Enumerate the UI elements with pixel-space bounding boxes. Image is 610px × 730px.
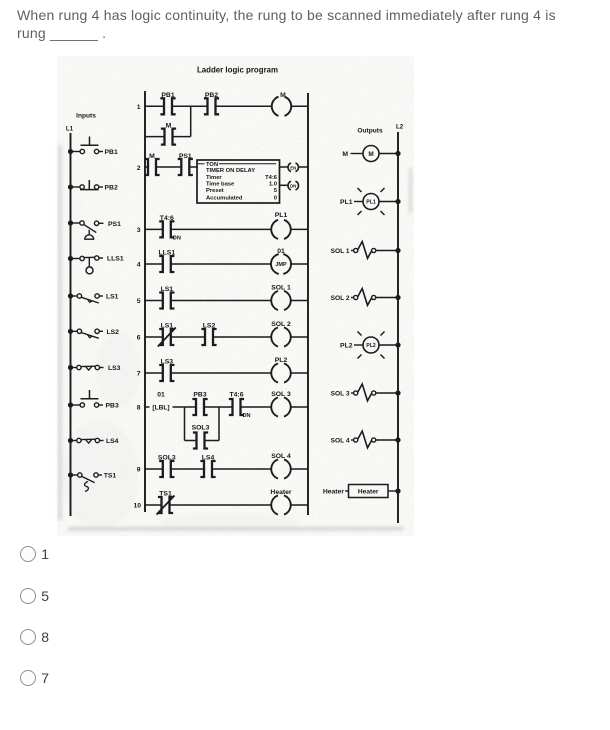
svg-text:PB3: PB3 <box>106 403 119 410</box>
node: rung number 3 <box>137 227 141 234</box>
contact LS4 (NO) rung 9 <box>200 455 215 478</box>
coil PL1 rung 3 <box>271 212 291 239</box>
coil Heater rung 10 <box>270 489 292 515</box>
contact LS1 (NC) rung 6 <box>158 323 176 347</box>
wire rung 9 <box>145 468 308 470</box>
contact LLS1 (NO) rung 4 <box>158 250 175 273</box>
solenoid SOL 2 output <box>331 289 401 306</box>
node: rung number 9 <box>137 467 141 474</box>
svg-text:5: 5 <box>137 298 141 305</box>
contact M seal-in (NO) rung 1 branch <box>161 123 176 145</box>
svg-text:PB1: PB1 <box>105 149 118 156</box>
svg-text:6: 6 <box>137 335 141 342</box>
pilot light PL1 output <box>340 188 401 215</box>
svg-text:M: M <box>166 123 172 130</box>
svg-text:TS1: TS1 <box>104 473 117 480</box>
svg-text:LLS1: LLS1 <box>158 250 175 257</box>
svg-text:SOL 3: SOL 3 <box>331 391 350 398</box>
contact PS1 (NO) rung 2 <box>178 153 193 175</box>
svg-text:DN: DN <box>243 413 251 419</box>
svg-text:Heater: Heater <box>270 489 292 496</box>
svg-text:9: 9 <box>137 467 141 474</box>
svg-text:SOL3: SOL3 <box>158 455 176 462</box>
level switch LLS1 (NO) input <box>68 256 124 274</box>
svg-text:PL2: PL2 <box>340 343 353 350</box>
svg-text:2: 2 <box>137 165 141 172</box>
wire rung 1 <box>145 105 308 107</box>
coil EN of timer T4:6 <box>280 163 309 172</box>
svg-text:Preset: Preset <box>206 188 224 194</box>
node: rung number 7 <box>137 371 141 378</box>
svg-text:LS2: LS2 <box>203 323 216 330</box>
coil SOL 4 rung 9 <box>271 453 291 479</box>
svg-text:LS3: LS3 <box>161 359 174 366</box>
svg-text:M: M <box>368 151 373 158</box>
svg-text:Timer: Timer <box>206 175 222 181</box>
coil DN of timer T4:6 <box>280 181 299 190</box>
label Outputs <box>357 128 383 135</box>
wire rung 6 <box>145 336 308 338</box>
wire: L1 input rail <box>70 133 72 516</box>
svg-text:PS1: PS1 <box>108 221 121 228</box>
svg-text:PL2: PL2 <box>275 357 288 364</box>
wire rung 7 <box>145 372 308 374</box>
svg-text:LS2: LS2 <box>107 329 120 336</box>
wire rung 8 <box>145 406 308 408</box>
pushbutton PB1 (NO) input <box>68 137 118 157</box>
svg-text:PS1: PS1 <box>179 153 192 160</box>
svg-text:8: 8 <box>137 405 141 412</box>
svg-text:01: 01 <box>277 248 285 255</box>
pushbutton PB3 (NO) input <box>68 390 119 410</box>
pilot light PL2 output <box>340 332 401 359</box>
svg-text:T4:6: T4:6 <box>265 175 278 181</box>
wire: rung 8 parallel branch <box>185 407 220 441</box>
svg-text:SOL 1: SOL 1 <box>271 285 291 292</box>
coil SOL 3 rung 8 <box>271 391 291 417</box>
wire rung 2 <box>145 166 198 168</box>
pushbutton PB2 (NC) input <box>68 180 118 192</box>
svg-text:SOL 4: SOL 4 <box>331 438 350 445</box>
coil PL2 rung 7 <box>271 357 291 383</box>
svg-text:01: 01 <box>157 392 165 399</box>
label LBL 01 rung 8 <box>152 392 169 412</box>
svg-text:SOL 4: SOL 4 <box>271 453 291 460</box>
contact LS1 (NO) rung 5 <box>159 286 174 309</box>
svg-text:PL1: PL1 <box>340 199 353 206</box>
svg-text:LLS1: LLS1 <box>107 256 124 263</box>
svg-text:SOL 2: SOL 2 <box>331 295 350 302</box>
svg-text:M: M <box>280 92 286 99</box>
wire: rung 1 parallel branch <box>145 106 191 136</box>
svg-text:Heater: Heater <box>323 489 345 496</box>
svg-text:Inputs: Inputs <box>76 113 96 120</box>
svg-text:JMP: JMP <box>275 262 287 268</box>
limit switch LS4 (NC held) input <box>68 438 119 445</box>
svg-text:TS1: TS1 <box>159 491 172 498</box>
scanned paper background <box>57 56 414 536</box>
wire rung 5 <box>145 300 308 302</box>
node: rung number 8 <box>137 405 141 412</box>
contact LS3 (NO) rung 7 <box>159 359 174 382</box>
contact PB3 (NO) rung 8 <box>192 392 207 416</box>
svg-text:LS3: LS3 <box>108 365 121 372</box>
node: rung number 6 <box>137 335 141 342</box>
coil SOL 2 rung 6 <box>271 321 291 347</box>
svg-text:Time base: Time base <box>206 181 235 187</box>
svg-text:4: 4 <box>137 262 141 269</box>
coil JMP 01 rung 4 <box>271 248 291 274</box>
svg-text:L2: L2 <box>396 124 404 131</box>
svg-text:PL1: PL1 <box>366 200 376 206</box>
heater output <box>323 485 401 498</box>
coil SOL 1 rung 5 <box>271 285 291 311</box>
svg-text:TIMER ON DELAY: TIMER ON DELAY <box>206 168 255 174</box>
node: rung number 2 <box>137 165 141 172</box>
svg-text:PB1: PB1 <box>161 92 174 99</box>
limit switch LS1 (NO) input <box>68 293 119 303</box>
svg-text:T4:6: T4:6 <box>230 392 244 399</box>
contact T4:6 DN (NO) rung 3 <box>159 215 181 242</box>
svg-text:PL1: PL1 <box>275 212 288 219</box>
svg-text:LS4: LS4 <box>202 455 215 462</box>
label Inputs <box>76 113 96 120</box>
temperature switch TS1 input <box>68 472 116 491</box>
wire rung 3 <box>145 228 308 230</box>
svg-text:L1: L1 <box>66 126 74 133</box>
node: rung number 4 <box>137 262 141 269</box>
svg-text:M: M <box>342 151 348 158</box>
node L2 <box>396 124 404 131</box>
svg-text:LS1: LS1 <box>161 323 174 330</box>
contact LS2 (NO) rung 6 <box>201 323 216 346</box>
contact PB1 (NO) rung 1 <box>160 92 175 114</box>
svg-text:[LBL]: [LBL] <box>152 405 169 412</box>
svg-text:T4:6: T4:6 <box>160 215 174 222</box>
motor M output <box>342 146 400 162</box>
svg-text:LS4: LS4 <box>106 438 119 445</box>
svg-text:LS1: LS1 <box>106 294 119 301</box>
svg-text:PL2: PL2 <box>366 343 376 349</box>
svg-text:Accumulated: Accumulated <box>206 196 243 202</box>
node: rung number 5 <box>137 298 141 305</box>
title: Ladder logic program <box>197 66 278 75</box>
wire rung 4 <box>145 263 308 265</box>
svg-text:LS1: LS1 <box>161 286 174 293</box>
solenoid SOL 3 output <box>331 384 401 401</box>
svg-text:SOL 3: SOL 3 <box>271 391 291 398</box>
svg-text:10: 10 <box>133 503 141 510</box>
svg-text:DN: DN <box>290 184 296 189</box>
limit switch LS2 (NO) input <box>68 329 119 339</box>
coil M rung 1 <box>272 92 292 116</box>
wire rung 10 <box>145 504 308 506</box>
svg-text:7: 7 <box>137 371 141 378</box>
svg-text:TON: TON <box>206 162 218 168</box>
svg-text:SOL 1: SOL 1 <box>331 248 350 255</box>
svg-text:3: 3 <box>137 227 141 234</box>
contact PB2 (NC wired NO) rung 1 <box>204 92 219 114</box>
node: rung number 10 <box>133 503 141 510</box>
svg-text:Outputs: Outputs <box>357 128 383 135</box>
svg-text:0: 0 <box>274 196 277 202</box>
solenoid SOL 4 output <box>331 431 401 448</box>
contact TS1 (NC) rung 10 <box>157 491 175 515</box>
svg-text:Ladder logic program: Ladder logic program <box>197 66 278 75</box>
svg-text:PB2: PB2 <box>105 185 118 192</box>
node L1 <box>66 126 74 133</box>
svg-text:1: 1 <box>137 104 141 111</box>
limit switch LS3 (NC held) input <box>68 365 121 372</box>
pressure switch PS1 (NO) input <box>68 220 121 239</box>
svg-text:EN: EN <box>290 165 296 170</box>
svg-text:PB3: PB3 <box>193 392 206 399</box>
svg-text:DN: DN <box>173 236 181 242</box>
svg-text:1.0: 1.0 <box>269 181 277 187</box>
wire: ladder right power rail <box>307 93 309 515</box>
svg-text:SOL3: SOL3 <box>192 425 210 432</box>
svg-text:PB2: PB2 <box>205 92 218 99</box>
contact SOL3 (NO) rung 9 <box>158 455 176 478</box>
contact SOL3 (NO) rung 8 branch <box>192 425 210 449</box>
contact T4:6 DN (NO) rung 8 <box>229 392 251 420</box>
wire: L2 output rail <box>397 132 399 523</box>
svg-text:Heater: Heater <box>358 489 379 496</box>
wire: ladder left power rail <box>144 91 146 512</box>
svg-text:M: M <box>149 153 155 160</box>
solenoid SOL 1 output <box>331 242 401 259</box>
svg-text:SOL 2: SOL 2 <box>271 321 291 328</box>
contact M (NO) rung 2 <box>144 153 159 175</box>
timer block TON T4:6 <box>197 160 280 203</box>
node: rung number 1 <box>137 104 141 111</box>
